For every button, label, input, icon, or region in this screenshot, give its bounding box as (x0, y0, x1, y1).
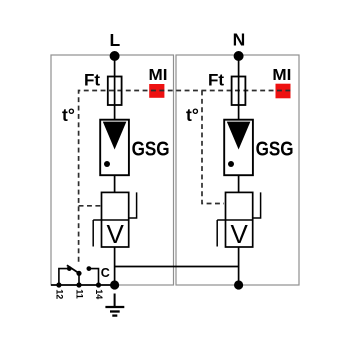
wire varistor V1 to bottom junction (114, 247, 116, 285)
svg-text:N: N (233, 30, 246, 50)
node L (terminal dot) (110, 51, 120, 61)
svg-text:V: V (107, 219, 125, 249)
fuse Ft1 (108, 77, 122, 106)
wire varistor V2 to bottom junction (238, 247, 240, 285)
indicator MI2 (red square) (276, 84, 291, 99)
spark gap GSG2 (224, 120, 253, 176)
svg-text:GSG: GSG (132, 138, 170, 160)
svg-text:V: V (231, 219, 249, 249)
svg-text:MI: MI (272, 67, 291, 84)
wire GSG2 to varistor V2 (238, 175, 240, 192)
module enclosure box 1 (L phase) (51, 55, 174, 285)
node N (terminal dot) (234, 51, 244, 61)
varistor V2 with thermal disconnector (217, 192, 260, 249)
wire GSG1 to varistor V1 (114, 175, 116, 192)
svg-text:L: L (109, 30, 120, 50)
svg-text:t°: t° (186, 105, 199, 125)
junction node (N module bottom) (234, 280, 243, 289)
indicator MI1 (red square) (149, 84, 164, 98)
svg-text:t°: t° (62, 105, 75, 125)
dashed branch to varistor V1 disconnector (79, 205, 102, 207)
wire bottom bus joining both modules (115, 266, 239, 268)
svg-text:12: 12 (54, 289, 64, 299)
fuse Ft2 (232, 77, 246, 106)
svg-text:Ft: Ft (208, 71, 224, 90)
remote signalling changeover contact (terminals 12-11-14) (56, 265, 101, 287)
dashed drop to varistor V2 disconnector (202, 91, 224, 204)
svg-text:C: C (101, 266, 110, 280)
junction node PE (L module bottom) (110, 280, 119, 289)
wire L lead (node L down through fuse to GSG1) (114, 56, 116, 120)
module enclosure box 2 (N phase) (176, 55, 299, 285)
wire N lead (node N down through fuse to GSG2) (238, 56, 240, 120)
svg-text:14: 14 (94, 289, 104, 299)
svg-text:MI: MI (149, 67, 168, 84)
wire remote-contact terminal rail (51, 284, 115, 286)
svg-text:GSG: GSG (256, 138, 294, 160)
varistor V1 with thermal disconnector (93, 192, 136, 249)
dashed thermal-sense line (horizontal bus through Ft1, MI1, Ft2, MI2 and down to switch) (79, 91, 291, 263)
ground (105, 294, 124, 316)
svg-text:Ft: Ft (84, 71, 100, 90)
spark gap GSG1 (100, 120, 129, 176)
svg-text:11: 11 (75, 289, 85, 299)
